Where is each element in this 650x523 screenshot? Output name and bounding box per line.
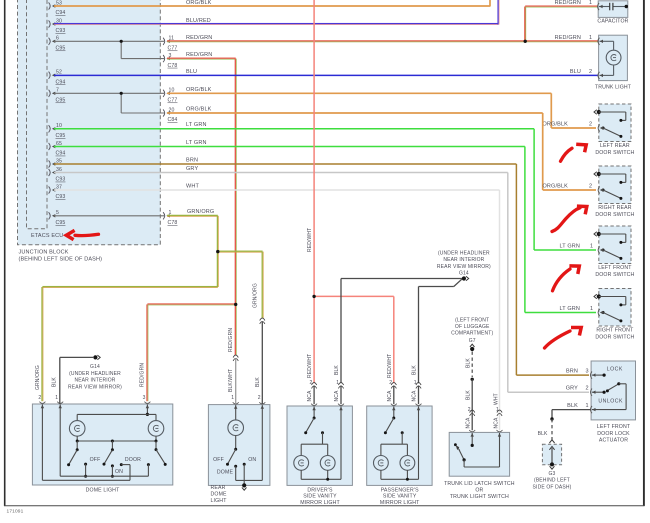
break on RED/WHT at driver vanity — [312, 383, 317, 385]
ECU pin 52 connector C94 — [49, 70, 66, 86]
svg-text:RIGHT REAR: RIGHT REAR — [598, 205, 632, 211]
svg-text:ORG/BLK: ORG/BLK — [542, 184, 568, 190]
junction block pin 1 connector C78 — [163, 210, 177, 226]
ECU pin 6 connector C95 — [49, 36, 66, 52]
svg-text:C93: C93 — [56, 28, 66, 34]
ECU pin 36 connector C93 — [49, 167, 66, 183]
ECU pin 7 connector C95 — [49, 88, 66, 104]
ground G7 (left front of luggage compartment) — [451, 317, 493, 351]
svg-text:LEFT FRONT: LEFT FRONT — [598, 265, 632, 271]
wire RED/WHT from top to vanity mirror lights — [307, 0, 394, 404]
svg-text:1: 1 — [590, 306, 593, 312]
svg-text:LT GRN: LT GRN — [186, 140, 207, 146]
wire ORG/BLK pin 10 to left rear door switch — [167, 87, 596, 128]
junction RED/GRN capacitor branch — [524, 40, 527, 43]
svg-text:GRY: GRY — [566, 386, 578, 392]
svg-text:1: 1 — [589, 35, 592, 41]
wire ECU pin 6 to pins 11/3 — [54, 41, 164, 58]
svg-text:DOME LIGHT: DOME LIGHT — [86, 487, 120, 493]
break on RED/GRN at rear dome — [233, 355, 238, 357]
svg-text:(LEFT FRONT: (LEFT FRONT — [455, 317, 489, 323]
svg-text:2: 2 — [589, 122, 592, 128]
junction block pin 3 connector C78 — [163, 53, 177, 69]
wire ORG/BLK pin 53 (exits top at x=490) — [54, 0, 490, 7]
ETACS ECU (dashed box) — [27, 0, 64, 239]
left rear door switch — [594, 104, 635, 156]
svg-text:5: 5 — [56, 210, 59, 216]
svg-text:BLK: BLK — [255, 377, 261, 387]
svg-text:RED/GRN: RED/GRN — [555, 35, 581, 41]
wire GRN/ORG pin 1 to dome light / rear dome light — [41, 209, 263, 401]
left front door switch — [594, 226, 635, 278]
break on WHT wire at trunk switch — [497, 410, 502, 412]
svg-text:DOOR SWITCH: DOOR SWITCH — [595, 212, 634, 218]
svg-text:OR: OR — [475, 487, 483, 493]
svg-text:RIGHT FRONT: RIGHT FRONT — [596, 328, 634, 334]
wire ECU pin 5 to pin 1 — [54, 215, 164, 217]
svg-text:BLK: BLK — [52, 377, 58, 387]
svg-text:52: 52 — [56, 70, 62, 76]
svg-text:WHT: WHT — [494, 393, 500, 405]
capacitor — [597, 1, 628, 25]
svg-text:RED/GRN: RED/GRN — [228, 328, 234, 352]
svg-text:JUNCTION BLOCK: JUNCTION BLOCK — [19, 250, 69, 256]
driver's side vanity mirror light — [287, 404, 352, 506]
svg-text:NCA: NCA — [411, 390, 417, 402]
svg-text:2: 2 — [586, 386, 589, 392]
ECU pin 10 connector C95 — [49, 123, 66, 139]
svg-text:G14: G14 — [459, 271, 469, 277]
svg-text:RED/GRN: RED/GRN — [186, 52, 212, 58]
ECU pin 30 connector C93 — [49, 18, 66, 34]
svg-text:(BEHIND LEFT SIDE OF DASH): (BEHIND LEFT SIDE OF DASH) — [19, 257, 103, 263]
wire WHT pin 37 to trunk lid latch switch pin 1 — [54, 183, 500, 430]
svg-text:REAR VIEW MIRROR): REAR VIEW MIRROR) — [437, 264, 491, 270]
svg-text:ORG/BLK: ORG/BLK — [186, 106, 212, 112]
wire LT GRN pin 65 to right front door switch — [54, 140, 596, 313]
svg-text:LOCK: LOCK — [607, 366, 623, 372]
svg-text:LIGHT: LIGHT — [211, 498, 228, 504]
svg-text:TRUNK LID LATCH SWITCH: TRUNK LID LATCH SWITCH — [444, 481, 515, 487]
svg-text:BLK: BLK — [465, 390, 471, 400]
passenger's side vanity mirror light — [367, 404, 432, 506]
svg-text:C93: C93 — [56, 194, 66, 200]
right rear door switch — [594, 166, 635, 218]
svg-text:MIRROR LIGHT: MIRROR LIGHT — [300, 500, 340, 506]
red arrow to right front door switch — [545, 331, 571, 348]
svg-text:RED/WHT: RED/WHT — [307, 354, 313, 378]
dome light pin labels — [35, 363, 146, 401]
svg-text:1: 1 — [586, 403, 589, 409]
junction GRN/ORG split — [216, 250, 219, 253]
svg-text:LT GRN: LT GRN — [559, 306, 580, 312]
svg-text:DOOR SWITCH: DOOR SWITCH — [595, 272, 634, 278]
svg-text:C95: C95 — [56, 98, 66, 104]
svg-text:GRN/ORG: GRN/ORG — [253, 283, 259, 308]
svg-text:RED/GRN: RED/GRN — [555, 0, 581, 6]
svg-text:BLK: BLK — [411, 365, 417, 375]
svg-text:TRUNK LIGHT: TRUNK LIGHT — [595, 84, 632, 90]
svg-text:GRN/ORG: GRN/ORG — [187, 209, 214, 215]
svg-text:C77: C77 — [168, 46, 178, 52]
svg-text:NCA: NCA — [387, 390, 393, 402]
svg-text:TRUNK LIGHT SWITCH: TRUNK LIGHT SWITCH — [450, 494, 509, 500]
svg-text:NEAR INTERIOR: NEAR INTERIOR — [74, 378, 115, 384]
ECU pin 35 — [49, 158, 62, 167]
svg-text:ORG/BLK: ORG/BLK — [542, 122, 568, 128]
svg-text:LT GRN: LT GRN — [186, 122, 207, 128]
junction block pin 10 connector C77 — [163, 88, 177, 104]
ground G14 (under headliner near interior rear view mirror) — [437, 251, 491, 281]
svg-text:ACTUATOR: ACTUATOR — [599, 438, 628, 444]
svg-text:UNLOCK: UNLOCK — [598, 399, 623, 405]
svg-text:C95: C95 — [56, 133, 66, 139]
svg-text:BLK: BLK — [538, 431, 548, 437]
svg-text:SIDE VANITY: SIDE VANITY — [303, 494, 337, 500]
wire RED/GRN pin 3 to dome light / rear dome light — [146, 52, 236, 401]
svg-text:G14: G14 — [90, 364, 100, 370]
svg-text:GRY: GRY — [186, 166, 198, 172]
wire ECU pin 7 to pins 10/20 — [54, 93, 164, 113]
svg-text:BRN: BRN — [566, 369, 578, 375]
ground G14 at dome light — [68, 355, 122, 390]
wire BLK ground G7 to trunk lid latch switch pin 2 — [465, 352, 474, 431]
svg-text:DRIVER'S: DRIVER'S — [307, 488, 333, 494]
svg-text:DOOR: DOOR — [125, 457, 141, 463]
ECU pin 53 connector C94 — [49, 0, 66, 16]
left front door lock actuator — [590, 361, 635, 444]
svg-text:2: 2 — [589, 184, 592, 190]
svg-text:(BEHIND LEFT: (BEHIND LEFT — [534, 477, 570, 483]
svg-text:OFF: OFF — [90, 457, 101, 463]
ground G3 (behind left side of dash) — [533, 444, 572, 490]
junction block (dashed box) — [18, 0, 161, 263]
svg-text:DOOR SWITCH: DOOR SWITCH — [595, 150, 634, 156]
svg-text:DOME: DOME — [217, 469, 234, 475]
svg-text:2: 2 — [258, 395, 261, 401]
svg-text:PASSENGER'S: PASSENGER'S — [381, 488, 419, 494]
svg-text:BLU: BLU — [186, 69, 197, 75]
trunk lid latch switch or trunk light switch — [444, 430, 515, 500]
svg-text:NEAR INTERIOR: NEAR INTERIOR — [443, 257, 484, 263]
svg-text:RED/WHT: RED/WHT — [307, 228, 313, 252]
svg-text:(UNDER HEADLINER: (UNDER HEADLINER — [69, 371, 121, 377]
svg-text:C84: C84 — [168, 117, 178, 123]
svg-text:SIDE OF DASH): SIDE OF DASH) — [533, 484, 572, 490]
svg-text:C94: C94 — [56, 79, 66, 85]
svg-text:RED/GRN: RED/GRN — [140, 363, 146, 387]
wire ORG/BLK pin 20 to right rear door switch — [167, 106, 596, 190]
svg-text:C78: C78 — [168, 63, 178, 69]
svg-text:C95: C95 — [56, 220, 66, 226]
svg-text:2: 2 — [389, 380, 392, 386]
svg-text:1: 1 — [231, 395, 234, 401]
svg-text:LEFT REAR: LEFT REAR — [600, 143, 630, 149]
svg-text:NCA: NCA — [465, 417, 471, 429]
break on BLK at trunk switch — [470, 410, 475, 412]
svg-text:BLK: BLK — [567, 403, 578, 409]
svg-text:C94: C94 — [56, 151, 66, 157]
ground at rear dome light — [242, 483, 246, 487]
svg-text:WHT: WHT — [186, 183, 199, 189]
svg-text:G3: G3 — [549, 471, 556, 477]
svg-text:BLK: BLK — [465, 358, 471, 368]
junction block pin 20 connector C84 — [163, 107, 177, 123]
svg-text:LT GRN: LT GRN — [559, 244, 580, 250]
svg-text:BLK/WHT: BLK/WHT — [228, 369, 234, 392]
svg-text:DOOR SWITCH: DOOR SWITCH — [595, 335, 634, 341]
dome light — [32, 402, 172, 494]
wire BLU pin 52 to trunk light — [54, 69, 598, 76]
svg-text:2: 2 — [468, 407, 471, 413]
svg-text:OFF: OFF — [213, 457, 224, 463]
wire BLU/RED pin 30 (exits top at x=498.5) — [54, 0, 499, 25]
ECU pin 5 connector C95 — [49, 210, 66, 226]
break on GRN/ORG at rear dome — [260, 318, 265, 320]
ECU pin 37 connector C93 — [49, 184, 66, 200]
svg-text:RED/WHT: RED/WHT — [387, 354, 393, 378]
rear dome pin labels — [228, 328, 261, 401]
svg-text:DOME: DOME — [211, 491, 228, 497]
svg-text:ORG/BLK: ORG/BLK — [186, 87, 212, 93]
svg-text:CAPACITOR: CAPACITOR — [597, 19, 628, 25]
junction pin7 split — [120, 92, 123, 95]
svg-text:(UNDER HEADLINER: (UNDER HEADLINER — [438, 251, 490, 257]
svg-text:C94: C94 — [56, 10, 66, 16]
red arrow to ETACS ECU — [75, 234, 99, 235]
svg-text:COMPARTMENT): COMPARTMENT) — [451, 331, 493, 337]
svg-text:7: 7 — [56, 88, 59, 94]
wire BRN pin 35 to door lock actuator pin 3 — [54, 157, 589, 375]
right front door switch — [594, 289, 635, 341]
svg-text:BRN: BRN — [186, 157, 198, 163]
svg-text:BLU: BLU — [570, 69, 581, 75]
svg-text:6: 6 — [56, 36, 59, 42]
svg-text:ON: ON — [248, 457, 256, 463]
svg-text:1: 1 — [589, 0, 592, 6]
svg-text:REAR VIEW MIRROR): REAR VIEW MIRROR) — [68, 384, 122, 390]
wire GRY pin 36 to door lock actuator pin 2 — [54, 166, 589, 392]
wire LT GRN pin 10 to left front door switch — [54, 122, 596, 250]
svg-text:ON: ON — [115, 469, 123, 475]
svg-text:1: 1 — [55, 395, 58, 401]
wire BLK driver vanity pin1 to G14 — [334, 279, 462, 405]
trunk light — [595, 35, 632, 90]
svg-text:NCA: NCA — [494, 417, 500, 429]
svg-text:2: 2 — [38, 395, 41, 401]
svg-text:2: 2 — [310, 380, 313, 386]
junction pin6 split — [120, 40, 123, 43]
wire BLK dome light pin1 to G14 — [60, 357, 93, 404]
wire RED/GRN pin 11 to capacitor and trunk light — [167, 0, 598, 42]
svg-text:NCA: NCA — [334, 390, 340, 402]
red arrow to left rear door switch — [561, 148, 573, 161]
svg-text:NCA: NCA — [307, 390, 313, 402]
svg-text:3: 3 — [586, 369, 589, 375]
svg-text:SIDE VANITY: SIDE VANITY — [383, 494, 417, 500]
svg-text:1: 1 — [590, 244, 593, 250]
svg-text:171091: 171091 — [7, 509, 24, 515]
break on RED/WHT at passenger vanity — [391, 383, 396, 385]
svg-text:OF LUGGAGE: OF LUGGAGE — [455, 324, 490, 330]
svg-text:C77: C77 — [168, 98, 178, 104]
svg-text:DOOR LOCK: DOOR LOCK — [597, 431, 630, 437]
wire BLK passenger vanity pin1 to G14 — [411, 279, 462, 404]
svg-text:GRN/ORG: GRN/ORG — [35, 365, 41, 390]
rear dome light — [208, 402, 270, 485]
svg-text:C93: C93 — [56, 177, 66, 183]
wire BLK actuator pin 1 to ground G3 — [538, 403, 592, 443]
junction RED/GRN split to dome lights — [234, 303, 237, 306]
svg-text:RED/GRN: RED/GRN — [186, 35, 212, 41]
junction RED/WHT split — [312, 295, 315, 298]
svg-text:3: 3 — [143, 395, 146, 401]
svg-text:LEFT FRONT: LEFT FRONT — [597, 424, 631, 430]
rear dome light label — [211, 485, 228, 504]
red arrow to right rear door switch — [552, 208, 580, 232]
svg-text:C95: C95 — [56, 46, 66, 52]
ECU pin 65 connector C94 — [49, 141, 66, 157]
svg-text:REAR: REAR — [211, 485, 226, 491]
svg-text:2: 2 — [589, 69, 592, 75]
red arrow to left front door switch — [553, 269, 571, 291]
svg-text:MIRROR LIGHT: MIRROR LIGHT — [380, 500, 420, 506]
svg-text:ETACS ECU: ETACS ECU — [31, 233, 63, 239]
break on BLK at driver vanity — [338, 383, 343, 385]
break on BLK at passenger vanity — [416, 383, 421, 385]
svg-text:C78: C78 — [168, 220, 178, 226]
svg-text:G7: G7 — [469, 338, 476, 344]
svg-text:BLU/RED: BLU/RED — [186, 18, 211, 24]
svg-text:ORG/BLK: ORG/BLK — [186, 0, 212, 6]
junction block pin 11 connector C77 — [163, 36, 177, 52]
svg-text:BLK: BLK — [334, 365, 340, 375]
